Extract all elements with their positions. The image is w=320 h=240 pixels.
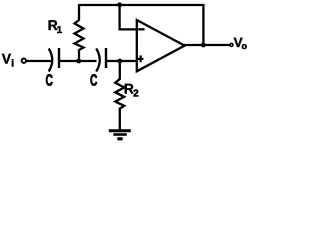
svg-text:C: C bbox=[46, 73, 54, 90]
wire C1 to C2 bbox=[59, 60, 97, 62]
op-amp U1 bbox=[137, 20, 185, 71]
junction node R1/C1/C2 bbox=[76, 59, 81, 64]
junction top wire to inverting branch bbox=[117, 2, 122, 7]
resistor R2 bbox=[115, 61, 124, 130]
capacitor C2 curved plate bbox=[96, 49, 100, 72]
wire C2 to op-amp + input bbox=[106, 60, 137, 62]
input terminal Vi bbox=[22, 59, 26, 63]
svg-text:o: o bbox=[242, 41, 248, 51]
capacitor C1 straight plate bbox=[58, 48, 60, 68]
node Vo label bbox=[234, 35, 248, 51]
wire feedback vertical bbox=[202, 5, 204, 45]
resistor R1 label bbox=[48, 17, 63, 36]
wire top feedback horizontal bbox=[78, 4, 205, 6]
svg-text:1: 1 bbox=[57, 25, 63, 36]
svg-text:i: i bbox=[11, 58, 14, 69]
capacitor C1 curved plate bbox=[49, 49, 53, 72]
wire Vi to C1 bbox=[27, 60, 51, 62]
svg-text:2: 2 bbox=[133, 89, 139, 100]
wire to inverting input bbox=[120, 5, 137, 29]
op-amp non-inverting input + sign bbox=[138, 55, 144, 62]
op-amp inverting input - sign bbox=[138, 28, 144, 30]
wire op-amp output bbox=[184, 44, 230, 46]
junction node C2/R2/op-amp bbox=[117, 59, 122, 64]
svg-text:C: C bbox=[90, 73, 98, 90]
resistor R2 label bbox=[124, 81, 139, 100]
junction output node bbox=[201, 43, 206, 48]
ground bbox=[109, 131, 131, 139]
output terminal Vo bbox=[230, 43, 233, 46]
resistor R1 bbox=[75, 5, 84, 60]
node Vi label bbox=[2, 50, 14, 69]
capacitor C2 straight plate bbox=[105, 48, 107, 68]
